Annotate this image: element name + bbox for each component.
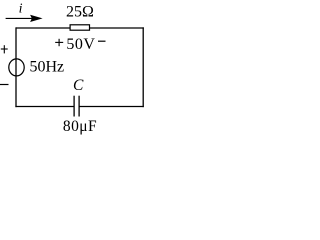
label − of 50V <box>98 40 106 42</box>
svg-text:50V: 50V <box>66 36 95 53</box>
wire top-right segment <box>90 27 144 29</box>
svg-text:80μF: 80μF <box>63 118 97 135</box>
wire left side <box>15 27 17 107</box>
resistor R 25Ω box <box>70 25 89 30</box>
svg-text:25Ω: 25Ω <box>66 4 94 21</box>
wire top-left segment <box>16 27 70 29</box>
current arrow i shaft <box>6 17 32 19</box>
capacitor C right plate <box>78 96 80 117</box>
label + of 50V horizontal stroke <box>55 41 63 43</box>
label − of source <box>0 84 9 86</box>
current arrow head <box>30 15 42 22</box>
label + of source horizontal stroke <box>1 48 8 50</box>
svg-text:50Hz: 50Hz <box>30 59 65 76</box>
svg-text:C: C <box>73 77 84 94</box>
capacitor C left plate <box>73 96 75 117</box>
label + of source vertical stroke <box>3 45 5 53</box>
svg-text:i: i <box>19 2 23 17</box>
wire bottom-right segment <box>79 106 144 108</box>
label + of 50V vertical stroke <box>58 39 60 46</box>
AC source circle 50Hz <box>9 59 24 76</box>
wire bottom-left segment <box>15 106 74 108</box>
wire right side <box>142 27 144 107</box>
